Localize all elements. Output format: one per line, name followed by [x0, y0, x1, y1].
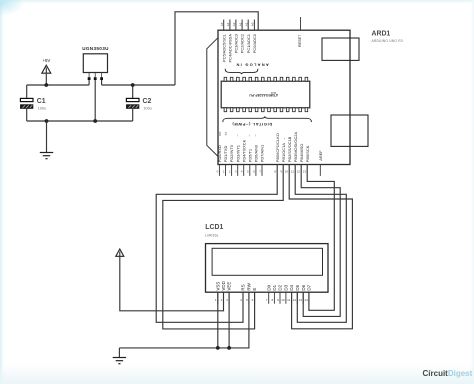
svg-text:ARD1: ARD1 — [372, 31, 391, 38]
svg-text:A5: A5 — [220, 22, 224, 26]
svg-text:D6: D6 — [301, 284, 306, 290]
svg-text:7: 7 — [259, 170, 261, 174]
analog pin name labels PC5..PC0 — [221, 33, 257, 62]
svg-text:13: 13 — [303, 170, 307, 174]
svg-text:9: 9 — [277, 298, 279, 302]
svg-text:D0: D0 — [266, 284, 271, 290]
hall sensor U1 UGN3503U — [82, 46, 109, 80]
svg-text:AREF: AREF — [318, 150, 323, 161]
svg-text:A2: A2 — [238, 22, 242, 26]
brace digital group — [223, 117, 312, 123]
pin number digits 0..13 — [217, 170, 307, 174]
LCD pin stubs and numbers 1..14 — [215, 292, 309, 304]
svg-text:8: 8 — [271, 298, 273, 302]
svg-text:8: 8 — [274, 170, 276, 174]
svg-text:PD5/T1: PD5/T1 — [247, 149, 252, 162]
wire PB4 (pin12) to LCD D5, wrapping right — [301, 165, 340, 317]
svg-text:TX: TX — [224, 132, 228, 136]
digital pin name labels PB0..PB5 — [275, 132, 310, 163]
svg-text:100u: 100u — [144, 107, 152, 111]
wire LCD VSS down to ground rail — [217, 292, 219, 348]
wire +5V rail (left segment) — [27, 84, 89, 86]
ground symbol (sensor area) — [40, 121, 53, 159]
svg-text:4: 4 — [241, 170, 243, 174]
svg-text:A0: A0 — [251, 22, 255, 26]
svg-text:VEE: VEE — [227, 282, 232, 291]
ground symbol (LCD area) — [113, 348, 126, 364]
wire sensor output up and over to Arduino A0 — [175, 12, 258, 85]
junction +5V rail / power arrow — [44, 83, 48, 87]
AREF pin stub — [319, 165, 321, 176]
unconnected digital pin stubs PD0..PD7 — [219, 165, 262, 176]
junction ground rail / ground stub — [45, 119, 49, 123]
svg-text:~: ~ — [283, 138, 287, 140]
svg-text:RW: RW — [247, 282, 252, 290]
junction ground rail / VSS — [216, 346, 220, 350]
svg-text:~: ~ — [289, 138, 293, 140]
svg-text:D5: D5 — [295, 284, 300, 290]
svg-text:LCD1: LCD1 — [205, 224, 223, 231]
wire PB2 (pin10) to LCD D7, wrapping right — [289, 165, 352, 329]
svg-text:ANALOG IN: ANALOG IN — [235, 63, 269, 68]
svg-text:PC4/ADC4/SDA: PC4/ADC4/SDA — [228, 34, 233, 63]
svg-text:PD0/RXD: PD0/RXD — [217, 145, 222, 162]
svg-text:2: 2 — [221, 298, 223, 302]
LCD display LCD1 LM016L — [205, 224, 328, 304]
svg-text:VSS: VSS — [215, 282, 220, 291]
svg-text:1: 1 — [215, 298, 217, 302]
svg-text:PC0/ADC0: PC0/ADC0 — [252, 33, 257, 53]
svg-text:4: 4 — [240, 298, 242, 302]
wire +5V to LCD VDD — [120, 256, 224, 311]
USB connector rectangle — [322, 38, 359, 60]
svg-text:~: ~ — [236, 135, 240, 137]
svg-text:A4: A4 — [226, 22, 230, 26]
svg-text:1: 1 — [223, 170, 225, 174]
power +5V symbol (LCD supply) — [116, 249, 124, 256]
capacitor C2 — [126, 85, 151, 121]
svg-text:~: ~ — [254, 135, 258, 137]
svg-text:VDD: VDD — [221, 280, 226, 290]
svg-text:RX: RX — [218, 131, 222, 135]
svg-text:D3: D3 — [284, 284, 289, 290]
svg-text:9: 9 — [280, 170, 282, 174]
wire PB5 (pin13) to LCD D4, wrapping right — [307, 165, 334, 311]
svg-text:PB5/SCK: PB5/SCK — [305, 145, 310, 162]
digital pin name labels PD0..PD7 — [217, 139, 265, 162]
svg-text:DIGITAL (~PWM): DIGITAL (~PWM) — [232, 122, 272, 127]
svg-text:PD6/AIN0: PD6/AIN0 — [254, 144, 259, 162]
svg-text:LM016L: LM016L — [205, 234, 218, 238]
microcontroller ATMEGA328P-PU (DIP drawing inside ARD1) — [221, 77, 310, 111]
svg-text:D1: D1 — [272, 284, 277, 290]
power jack rectangle — [331, 115, 368, 146]
svg-text:11: 11 — [287, 298, 290, 302]
svg-text:+5V: +5V — [43, 58, 51, 63]
svg-text:0: 0 — [217, 170, 219, 174]
svg-text:PD1/TXD: PD1/TXD — [223, 146, 228, 163]
svg-text:RESET: RESET — [298, 34, 302, 47]
svg-text:PB0/ICP1/CLKO: PB0/ICP1/CLKO — [275, 133, 280, 162]
capacitor C1 — [20, 85, 46, 121]
svg-text:3: 3 — [235, 170, 237, 174]
CircuitDigest watermark — [423, 369, 473, 378]
svg-text:13: 13 — [299, 298, 303, 302]
svg-text:6: 6 — [253, 170, 255, 174]
wire UGN3503U pin2 (GND) down to ground rail — [94, 80, 96, 121]
svg-text:C1: C1 — [37, 98, 46, 105]
junction ground rail / sensor GND — [93, 119, 97, 123]
svg-text:PB3/MOSI/OC2A: PB3/MOSI/OC2A — [293, 132, 298, 163]
svg-text:PC5/ADC5/SCL: PC5/ADC5/SCL — [221, 33, 226, 62]
svg-text:PB1/OC1A: PB1/OC1A — [281, 143, 286, 163]
svg-text:PD4/T0/XCK: PD4/T0/XCK — [241, 139, 246, 162]
svg-text:100u: 100u — [38, 107, 46, 111]
svg-text:PC3/ADC3: PC3/ADC3 — [234, 33, 239, 53]
svg-text:PD3/INT1: PD3/INT1 — [235, 145, 240, 162]
wire PB1 (pin9) to LCD E, wrapping left — [163, 165, 283, 329]
LCD pin name labels — [215, 280, 311, 290]
svg-text:A3: A3 — [232, 22, 236, 26]
svg-text:D7: D7 — [307, 284, 312, 290]
svg-text:11: 11 — [291, 170, 294, 174]
wire output rail to C2 and right — [102, 84, 175, 86]
svg-text:5: 5 — [246, 298, 248, 302]
wire UGN3503U pin1 (Vcc) to +5V rail — [88, 80, 90, 85]
svg-text:3: 3 — [226, 298, 228, 302]
svg-text:10: 10 — [285, 170, 289, 174]
svg-text:A1: A1 — [244, 22, 248, 26]
wire ground rail (under C1/C2) — [27, 120, 133, 122]
svg-text:6: 6 — [252, 298, 254, 302]
svg-text:PC2/ADC2: PC2/ADC2 — [240, 34, 245, 53]
svg-text:ATMEGA328P-PU: ATMEGA328P-PU — [249, 93, 278, 97]
svg-text:14: 14 — [304, 298, 308, 302]
wire ground rail to LCD RW — [119, 292, 249, 348]
svg-text:RS: RS — [241, 284, 246, 290]
svg-text:12: 12 — [297, 170, 301, 174]
wire UGN3503U pin3 (output) to output rail — [101, 80, 103, 85]
board chamfer outline — [207, 38, 218, 157]
wire PB3 (pin11) to LCD D6, wrapping right — [295, 165, 346, 323]
svg-text:ARDUINO UNO R3: ARDUINO UNO R3 — [372, 39, 403, 43]
svg-text:12: 12 — [293, 298, 297, 302]
svg-text:~: ~ — [295, 138, 299, 140]
svg-text:C2: C2 — [143, 98, 152, 105]
wire PB0 (pin8) to LCD RS, wrapping left — [156, 165, 277, 323]
svg-text:D4: D4 — [289, 284, 294, 290]
svg-text:E: E — [252, 288, 257, 291]
main body rectangle — [218, 30, 350, 164]
junction output rail / C2 — [131, 83, 135, 87]
Arduino U-board ARD1 ARDUINO UNO R3 — [207, 17, 403, 176]
wire LCD VEE down to ground rail — [228, 292, 230, 348]
svg-text:5: 5 — [247, 170, 249, 174]
svg-text:PD2/INT0: PD2/INT0 — [229, 144, 234, 162]
svg-text:PB4/MISO: PB4/MISO — [299, 144, 304, 163]
analog input pin stubs A5..A0 — [220, 20, 255, 31]
svg-text:UGN3503U: UGN3503U — [82, 46, 109, 51]
junction ground rail / VEE — [227, 346, 231, 350]
svg-text:PD7/AIN1: PD7/AIN1 — [260, 145, 265, 163]
power +5V symbol (top left) — [42, 58, 51, 85]
svg-text:PC1/ADC1: PC1/ADC1 — [246, 34, 251, 53]
reset pin stub — [300, 17, 302, 30]
PWM tilde marks — [236, 135, 299, 140]
svg-text:D2: D2 — [278, 284, 283, 290]
svg-text:7: 7 — [266, 298, 268, 302]
brace analog group — [225, 69, 258, 74]
svg-text:~: ~ — [248, 135, 252, 137]
svg-text:2: 2 — [229, 170, 231, 174]
svg-text:10: 10 — [281, 298, 285, 302]
